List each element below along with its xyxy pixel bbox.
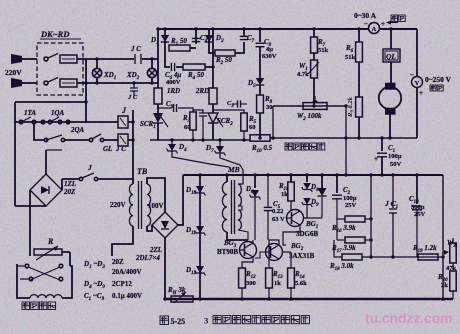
svg-text:R: R [47, 237, 54, 246]
svg-text:V: V [415, 80, 420, 87]
svg-text:0.22: 0.22 [272, 208, 283, 215]
svg-text:2ZL: 2ZL [149, 246, 162, 254]
svg-text:J C: J C [130, 45, 141, 53]
svg-text:220V: 220V [5, 68, 22, 77]
svg-text:51k: 51k [345, 54, 356, 61]
svg-text:51k: 51k [318, 47, 329, 54]
svg-text:20Z: 20Z [112, 258, 124, 266]
svg-text:2RD: 2RD [195, 87, 209, 95]
svg-text:63 V: 63 V [272, 216, 285, 223]
svg-text:300: 300 [246, 280, 256, 287]
svg-text:20Z: 20Z [63, 188, 76, 196]
svg-text:50V: 50V [390, 161, 402, 168]
svg-text:30: 30 [266, 104, 273, 111]
svg-text:5-25: 5-25 [171, 317, 186, 326]
svg-text:20A/400V: 20A/400V [112, 268, 142, 276]
svg-text:0~250 V: 0~250 V [425, 75, 452, 84]
svg-text:3DG6B: 3DG6B [296, 230, 319, 238]
svg-text:5.6k: 5.6k [295, 280, 307, 287]
svg-text:GL: GL [103, 145, 112, 153]
svg-text:1TA: 1TA [24, 109, 36, 117]
svg-text:TB: TB [137, 167, 148, 176]
svg-text:tu.cndzz.com: tu.cndzz.com [365, 311, 452, 327]
svg-text:+: + [419, 89, 423, 97]
svg-text:25V: 25V [345, 202, 357, 209]
svg-text:3: 3 [204, 316, 208, 326]
svg-text:−: − [364, 20, 368, 28]
svg-text:DK~RD: DK~RD [40, 29, 69, 39]
svg-text:3AX31B: 3AX31B [289, 252, 315, 260]
svg-text:+: + [374, 155, 378, 163]
svg-text:4μ: 4μ [266, 46, 273, 53]
svg-text:500μ: 500μ [411, 204, 425, 211]
svg-text:1RD: 1RD [167, 87, 180, 95]
svg-text:MB: MB [227, 165, 240, 174]
svg-text:BT90B: BT90B [217, 248, 238, 256]
svg-text:1k: 1k [274, 280, 281, 287]
svg-text:2DL7×4: 2DL7×4 [135, 254, 160, 262]
svg-text:100μ: 100μ [388, 153, 402, 160]
svg-text:4.7k: 4.7k [297, 71, 309, 78]
svg-text:60: 60 [184, 124, 191, 131]
svg-text:25V: 25V [414, 211, 426, 218]
svg-text:100μ: 100μ [343, 195, 357, 202]
svg-text:2k: 2k [441, 282, 448, 289]
svg-text:+: + [381, 20, 385, 28]
svg-text:2QA: 2QA [70, 126, 85, 134]
svg-text:1QA: 1QA [51, 109, 65, 117]
svg-text:−: − [410, 71, 414, 79]
svg-text:A: A [372, 26, 377, 33]
svg-text:2CP12: 2CP12 [112, 280, 132, 288]
svg-text:630V: 630V [262, 53, 277, 60]
svg-text:220V: 220V [110, 201, 126, 209]
svg-text:J: J [87, 163, 92, 172]
svg-text:1ZL: 1ZL [64, 180, 76, 188]
svg-text:0.1μ 400V: 0.1μ 400V [112, 292, 142, 300]
svg-text:QL: QL [386, 52, 396, 61]
svg-text:400V: 400V [166, 79, 181, 86]
svg-text:J C: J C [127, 94, 138, 101]
svg-text:1k: 1k [281, 191, 288, 198]
svg-text:0~30 A: 0~30 A [354, 11, 377, 20]
svg-text:60: 60 [249, 124, 256, 131]
